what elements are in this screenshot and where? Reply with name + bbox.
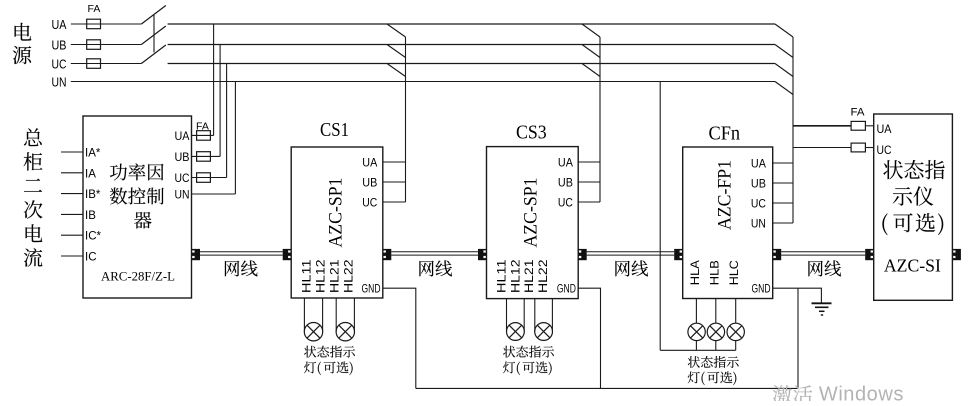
label 功率因 (controller line1)	[110, 163, 164, 180]
wire tap UC to controller	[226, 64, 228, 178]
svg-text:IC: IC	[85, 252, 97, 264]
svg-text:UN: UN	[751, 217, 766, 231]
svg-text:UN: UN	[175, 188, 190, 202]
svg-text:UA: UA	[52, 18, 68, 32]
label 源 (power source)	[13, 46, 32, 64]
svg-text:UB: UB	[52, 38, 67, 52]
svg-text:HLC: HLC	[727, 260, 741, 285]
svg-text:UC: UC	[52, 57, 67, 71]
svg-text:IA: IA	[85, 168, 96, 180]
label 网线 #4	[808, 260, 841, 276]
wire lamp return bus (CFn)	[660, 349, 736, 351]
wire feed taps to CFn (UA UB UC UN)	[773, 24, 793, 223]
module CS1 box (AZC-SP1)	[291, 147, 383, 298]
wire UC fuse to AZC-SI box	[865, 147, 873, 149]
switch linkage bar	[153, 15, 155, 53]
label 网线 #3	[615, 260, 648, 276]
wire ground bus	[416, 387, 798, 389]
label 总 (CT source column)	[24, 128, 42, 146]
wire controller UA terminal	[192, 134, 214, 136]
wire lamp lead (CS3)	[506, 299, 508, 332]
label 状态指示 (CS3)	[503, 346, 554, 358]
wire GND CS1 to ground bus	[383, 288, 416, 388]
label 示仪 (AZC-SI)	[893, 186, 934, 205]
wire lamp lead (CS3)	[523, 299, 525, 332]
indicator AZC-SI box	[874, 114, 953, 300]
fuse FA (controller UA)	[197, 131, 211, 141]
label (可选) (AZC-SI)	[882, 213, 943, 235]
fuse FA (UB)	[87, 40, 101, 50]
wire lamp lead (CFn)	[715, 299, 717, 324]
network port (CS3 right)	[578, 249, 587, 260]
label 状态指示 (CFn)	[688, 356, 739, 368]
fuse FA (controller UB)	[197, 152, 211, 162]
wire lamp to return bus (CFn)	[695, 341, 697, 351]
svg-text:UB: UB	[558, 176, 573, 190]
label 灯(可选) (CS3)	[503, 361, 552, 375]
wire UA supply segment	[71, 23, 142, 25]
wire lamp lead (CS1)	[322, 298, 324, 332]
svg-text:UA: UA	[751, 157, 766, 171]
lamp HL2x (CS1)	[336, 323, 354, 341]
svg-text:UA: UA	[877, 122, 892, 136]
svg-text:CS3: CS3	[516, 121, 547, 143]
wire UC to AZC-SI	[793, 147, 851, 149]
wire GND CFn to ground bus	[797, 288, 799, 388]
svg-text:UC: UC	[175, 171, 190, 185]
network port (CFn right)	[773, 249, 782, 260]
svg-text:CFn: CFn	[709, 122, 741, 144]
svg-text:IB: IB	[85, 210, 96, 222]
switch blade (UB)	[141, 26, 165, 45]
switch blade (UA)	[141, 6, 165, 25]
svg-text:UB: UB	[362, 176, 377, 190]
wire UB supply segment	[71, 44, 142, 46]
network port (CS1 right)	[383, 249, 392, 260]
svg-text:UC: UC	[751, 197, 766, 211]
fuse FA (controller UC)	[197, 173, 211, 183]
wire tap UB to controller	[219, 45, 221, 157]
network port (CS3 left)	[478, 249, 487, 260]
svg-text:UB: UB	[751, 177, 766, 191]
ground (earth symbol)	[812, 303, 832, 315]
svg-text:HLA: HLA	[688, 260, 702, 285]
label 电 (power source)	[15, 23, 32, 41]
svg-text:AZC-FP1: AZC-FP1	[715, 160, 736, 230]
svg-text:GND: GND	[362, 284, 381, 296]
svg-text:HL21: HL21	[327, 259, 341, 293]
wire UN bus	[71, 81, 775, 83]
wire CT input IB	[61, 213, 83, 215]
network port (CFn left)	[674, 249, 683, 260]
lamp HLx (CFn)	[727, 323, 744, 340]
svg-text:GND: GND	[752, 284, 771, 296]
wire lamp lead (CS1)	[303, 298, 305, 332]
svg-text:UB: UB	[175, 150, 190, 164]
label 状态指 (AZC-SI)	[883, 160, 944, 179]
wire lamp lead (CFn)	[735, 299, 737, 324]
wire lamp lead (CS3)	[534, 299, 536, 332]
wire controller UB terminal	[192, 155, 221, 157]
svg-text:CS1: CS1	[320, 119, 349, 141]
label 二 (CT source column)	[24, 179, 42, 192]
svg-text:FA: FA	[851, 107, 866, 119]
label 电 (CT source column)	[26, 224, 43, 242]
svg-text:IB*: IB*	[85, 189, 101, 201]
svg-text:UN: UN	[52, 75, 67, 89]
svg-text:UA: UA	[175, 129, 190, 143]
svg-text:AZC-SP1: AZC-SP1	[326, 178, 347, 248]
lamp HLx (CFn)	[707, 323, 724, 340]
svg-text:UA: UA	[362, 156, 377, 170]
svg-text:ARC-28F/Z-L: ARC-28F/Z-L	[101, 269, 175, 284]
network port (CS1 left)	[283, 249, 292, 260]
wire UA bus	[168, 23, 775, 25]
label 状态指示 (CS1)	[304, 346, 355, 358]
svg-text:HL11: HL11	[299, 259, 313, 293]
svg-text:IC*: IC*	[85, 231, 102, 243]
network port (controller)	[192, 249, 201, 260]
wire lamp to return bus (CFn)	[735, 341, 737, 351]
label 次 (CT source column)	[24, 200, 43, 218]
label 灯(可选) (CS1)	[304, 361, 353, 375]
network cable CS3-CFn	[587, 252, 675, 255]
svg-text:HL22: HL22	[341, 259, 355, 293]
label 网线 #1	[225, 260, 258, 276]
label 数控制 (controller line2)	[110, 187, 164, 204]
svg-text:Windows: Windows	[819, 384, 904, 402]
wire GND CS3 to ground bus	[578, 288, 600, 388]
wire UC bus	[168, 63, 775, 65]
wire tap UN to controller	[234, 82, 236, 195]
network port (AZC-SI left)	[865, 249, 874, 260]
wire lamp lead (CS3)	[551, 299, 553, 332]
svg-text:AZC-SP1: AZC-SP1	[521, 178, 542, 248]
wire CT input IC*	[61, 234, 83, 236]
svg-text:HL12: HL12	[313, 259, 327, 293]
network cable CS1-CS3	[391, 252, 478, 255]
label 柜 (CT source column)	[24, 152, 43, 170]
wire lamp to return bus (CFn)	[715, 341, 717, 351]
module CFn box (AZC-FP1)	[683, 147, 773, 299]
wire lamp lead (CS1)	[335, 298, 337, 332]
label 灯(可选) (CFn)	[688, 371, 737, 385]
wire UC supply segment	[71, 63, 142, 65]
wire controller UC terminal	[192, 177, 227, 179]
label 流 (CT source column)	[24, 248, 43, 267]
lamp HL2x (CS3)	[535, 323, 553, 341]
svg-text:FA: FA	[88, 3, 101, 15]
network port (AZC-SI right)	[952, 249, 961, 260]
wire feed taps to CS3 (UA UB UC)	[578, 24, 600, 202]
wire UA fuse to AZC-SI box	[865, 125, 873, 127]
label 网线 #2	[419, 260, 452, 276]
svg-text:GND: GND	[557, 284, 576, 296]
svg-text:IA*: IA*	[85, 148, 101, 160]
wire GND CFn to earth	[773, 288, 822, 303]
fuse FA (AZC-SI UC)	[851, 143, 865, 152]
wire UN return for CFn lamps	[659, 82, 661, 351]
svg-text:HLB: HLB	[707, 260, 721, 285]
lamp HLx (CFn)	[688, 323, 705, 340]
svg-text:UC: UC	[362, 196, 377, 210]
wire CT input IB*	[61, 193, 83, 195]
network cable CFn-AZC-SI	[781, 252, 865, 255]
module CS3 box (AZC-SP1)	[487, 147, 579, 299]
svg-text:AZC-SI: AZC-SI	[884, 256, 941, 276]
wire controller UN terminal	[192, 193, 236, 195]
label 器 (controller line3)	[134, 212, 152, 229]
wire lamp lead (CFn)	[695, 299, 697, 324]
svg-text:UC: UC	[558, 196, 573, 210]
svg-text:HL21: HL21	[522, 259, 536, 293]
wire tap UA to controller	[213, 24, 215, 135]
fuse FA (UC)	[87, 59, 101, 69]
wire UB bus	[168, 44, 775, 46]
svg-text:UC: UC	[877, 143, 892, 157]
controller ARC-28F/Z-L box	[83, 116, 192, 298]
wire CT input IA	[61, 172, 83, 174]
watermark 激活	[773, 385, 813, 404]
svg-text:HL11: HL11	[495, 259, 509, 293]
lamp HL1x (CS3)	[507, 323, 525, 341]
svg-text:UA: UA	[558, 156, 573, 170]
wire CT input IC	[61, 255, 83, 257]
fuse FA (AZC-SI UA)	[851, 121, 865, 130]
network cable controller-CS1	[200, 252, 283, 255]
svg-text:HL22: HL22	[536, 259, 550, 293]
fuse FA (UA)	[87, 19, 101, 29]
switch blade (UC)	[141, 45, 165, 64]
lamp HL1x (CS1)	[304, 323, 322, 341]
wire CT input IA*	[61, 151, 83, 153]
wire UA to AZC-SI	[793, 125, 851, 127]
wire lamp lead (CS1)	[353, 298, 355, 332]
wire feed taps to CS1 (UA UB UC)	[383, 24, 406, 202]
svg-text:HL12: HL12	[508, 259, 522, 293]
